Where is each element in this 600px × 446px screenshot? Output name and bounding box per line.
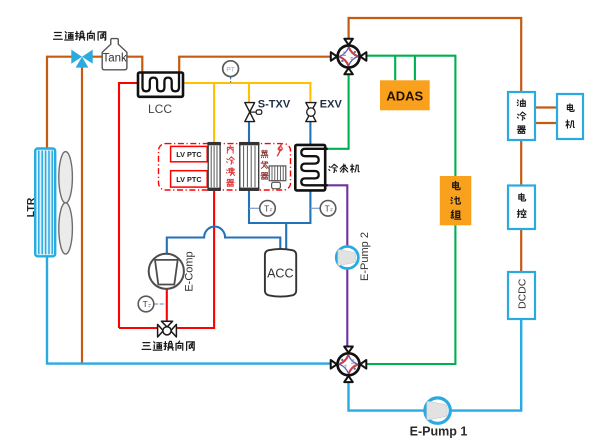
blower unit — [269, 166, 286, 189]
svg-text:E-Comp: E-Comp — [184, 251, 196, 291]
label: three-way valve top (CJK) — [54, 31, 106, 40]
T sensor at evaporator outlet — [260, 201, 276, 217]
HVAC module dashed red boundary — [159, 144, 291, 190]
wire: green top valve to battery to bottom valve — [367, 56, 455, 364]
four-way valve bottom — [331, 347, 367, 383]
svg-text:E-Pump 1: E-Pump 1 — [410, 425, 468, 439]
three-way reversing valve (coolant, blue) top-left — [71, 50, 92, 68]
label: motor (CJK) — [566, 104, 575, 128]
LCC condenser (coolant condenser) — [138, 72, 183, 97]
chiller heat exchanger — [295, 145, 327, 191]
wire: brown valve-to-tank and tank-to-LCC — [93, 57, 143, 73]
T sensor at chiller outlet — [320, 201, 336, 217]
svg-text:PT: PT — [226, 66, 234, 73]
evaporator core — [239, 143, 260, 191]
label: inner condenser (CJK red, vertical) — [226, 146, 234, 187]
four-way valve top — [331, 39, 367, 75]
wire: brown top run to oil cooler — [349, 18, 522, 92]
wire: blue EXV to chiller — [309, 122, 311, 145]
wire: red E-Comp outlet down to valve — [166, 289, 168, 322]
LTR low-temp radiator — [35, 149, 55, 257]
label: battery pack (CJK) — [451, 181, 461, 219]
inner condenser core — [207, 143, 221, 191]
label: three-way valve bottom (CJK) — [142, 341, 194, 350]
svg-text:LV PTC: LV PTC — [176, 175, 202, 184]
wire: brown LCC to top four-way valve — [179, 57, 330, 73]
ACC accumulator — [265, 249, 296, 297]
PT sensor — [223, 61, 239, 77]
E-Pump 1 — [425, 398, 450, 423]
wire: purple chiller to E-Pump2 to bottom valve — [328, 185, 348, 347]
wire: blue evaporator and chiller outlets to ACC — [249, 190, 310, 252]
svg-text:LV PTC: LV PTC — [176, 150, 202, 159]
label: oil cooler (CJK) — [517, 99, 526, 133]
wire: cyan LTR outlet to bottom four-way valve — [47, 256, 330, 363]
ADAS box — [380, 80, 430, 110]
wire: coolant hot (brown) left loop from three-way valve area — [47, 57, 82, 364]
label: evaporator (CJK, vertical) — [261, 150, 268, 179]
T sensor at compressor — [138, 296, 154, 312]
wire: red three-way to inner condenser — [176, 190, 215, 328]
E-Comp electric compressor — [149, 254, 184, 289]
oil cooler box — [508, 92, 535, 140]
motor box — [557, 94, 583, 139]
wire: cyan bottom valve to E-Pump1 to DCDC — [349, 319, 522, 411]
svg-text:ACC: ACC — [267, 267, 293, 281]
wire: brown oil cooler to motor links — [535, 108, 557, 124]
svg-text:LCC: LCC — [148, 102, 172, 116]
svg-text:E-Pump 2: E-Pump 2 — [359, 232, 371, 281]
wire: red compressor discharge loop to LCC — [119, 83, 159, 328]
DCDC box — [508, 272, 535, 319]
wire: green ADAS stubs — [395, 56, 415, 81]
inverter box — [508, 186, 535, 230]
svg-text:EXV: EXV — [320, 98, 343, 110]
three-way reversing valve (refrigerant) bottom — [158, 321, 177, 337]
wire: brown oil cooler to inverter — [520, 140, 522, 186]
wire: green top valve to chiller — [328, 74, 349, 149]
svg-text:Tank: Tank — [102, 53, 127, 65]
wire: sensor link chiller T — [310, 207, 320, 209]
wire: sensor link evaporator T — [249, 207, 260, 209]
wire: blue suction line ACC to E-Comp with hop — [167, 227, 280, 254]
svg-text:DCDC: DCDC — [517, 278, 529, 309]
E-Pump 2 — [336, 246, 358, 268]
wire: yellow LCC liquid line with branches — [183, 83, 310, 143]
label: chiller (CJK) — [329, 164, 359, 173]
wire: brown inverter to DCDC — [520, 229, 522, 272]
wire: sensor link E-Comp T — [154, 303, 166, 305]
wire: sensor dashed link PT — [230, 77, 232, 83]
svg-text:LTR: LTR — [25, 197, 37, 217]
LV PTC heater 2 — [171, 171, 208, 187]
battery pack box — [440, 176, 472, 225]
svg-text:ADAS: ADAS — [386, 88, 423, 103]
wire: blue S-TXV to evaporator — [248, 122, 250, 143]
fan blades beside LTR — [59, 152, 73, 255]
svg-text:S-TXV: S-TXV — [258, 98, 291, 110]
tank — [102, 39, 127, 70]
S-TXV expansion valve — [245, 103, 262, 122]
label: motor controller (CJK) — [517, 193, 526, 217]
EXV expansion valve — [306, 103, 316, 122]
electric heater flash icon — [277, 143, 282, 156]
LV PTC heater 1 — [171, 146, 208, 161]
